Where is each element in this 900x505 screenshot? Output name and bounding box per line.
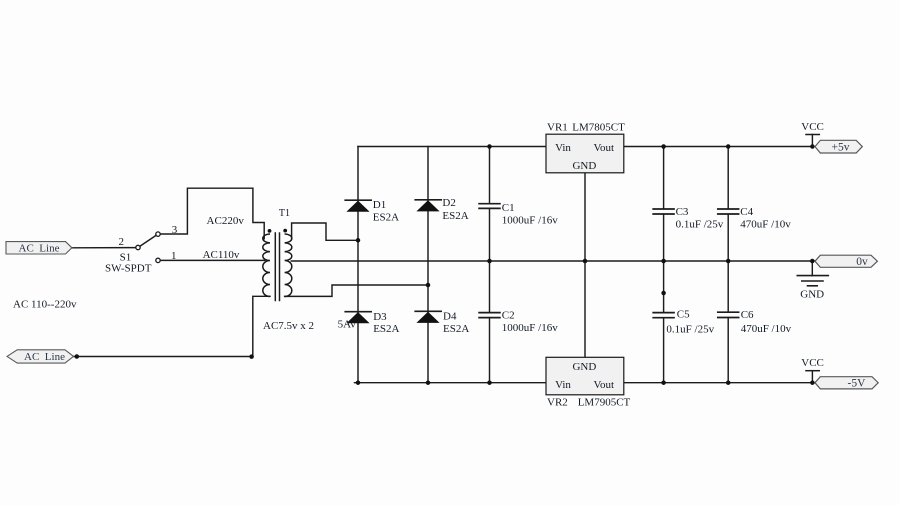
svg-text:VCC: VCC: [801, 357, 824, 369]
svg-text:VR1: VR1: [547, 121, 568, 133]
svg-text:-5V: -5V: [848, 378, 867, 390]
svg-text:Vin: Vin: [555, 379, 571, 391]
svg-text:AC220v: AC220v: [207, 215, 245, 227]
svg-text:2: 2: [119, 236, 125, 248]
svg-text:GND: GND: [800, 289, 824, 301]
svg-text:3: 3: [172, 224, 178, 236]
svg-text:470uF /10v: 470uF /10v: [740, 219, 791, 231]
svg-text:AC110v: AC110v: [203, 249, 240, 261]
svg-text:ES2A: ES2A: [373, 323, 399, 335]
svg-text:5Av: 5Av: [338, 319, 357, 331]
svg-text:GND: GND: [572, 361, 596, 373]
svg-text:LM7805CT: LM7805CT: [572, 121, 625, 133]
svg-text:GND: GND: [572, 160, 596, 172]
svg-text:0v: 0v: [856, 256, 868, 268]
svg-text:D4: D4: [443, 311, 457, 323]
svg-text:LM7905CT: LM7905CT: [578, 396, 631, 408]
svg-text:D1: D1: [373, 199, 386, 211]
svg-text:C2: C2: [502, 310, 515, 322]
svg-text:ES2A: ES2A: [442, 210, 468, 222]
svg-text:0.1uF /25v: 0.1uF /25v: [666, 324, 714, 336]
svg-text:AC7.5v x 2: AC7.5v x 2: [263, 320, 314, 332]
svg-text:Vout: Vout: [594, 379, 615, 391]
svg-text:1: 1: [171, 250, 177, 262]
svg-text:0.1uF /25v: 0.1uF /25v: [676, 219, 724, 231]
svg-text:1000uF /16v: 1000uF /16v: [502, 214, 558, 226]
svg-text:VR2: VR2: [547, 396, 568, 408]
svg-text:D3: D3: [373, 311, 387, 323]
svg-text:VCC: VCC: [801, 121, 824, 133]
svg-text:C6: C6: [741, 309, 754, 321]
svg-text:C3: C3: [676, 206, 689, 218]
svg-text:SW-SPDT: SW-SPDT: [105, 262, 152, 274]
svg-text:Vout: Vout: [594, 142, 615, 154]
svg-text:Vin: Vin: [555, 142, 571, 154]
svg-text:C5: C5: [677, 308, 690, 320]
svg-text:D2: D2: [442, 197, 455, 209]
svg-text:C1: C1: [502, 202, 515, 214]
svg-text:ES2A: ES2A: [443, 323, 469, 335]
svg-text:T1: T1: [279, 208, 290, 219]
svg-text:AC 110--220v: AC 110--220v: [13, 298, 77, 310]
svg-text:+5v: +5v: [832, 141, 850, 153]
svg-text:C4: C4: [740, 206, 753, 218]
svg-text:1000uF /16v: 1000uF /16v: [502, 322, 558, 334]
svg-text:AC Line: AC Line: [24, 351, 65, 363]
svg-text:AC Line: AC Line: [19, 243, 60, 255]
svg-text:470uF /10v: 470uF /10v: [741, 323, 792, 335]
svg-text:ES2A: ES2A: [373, 211, 399, 223]
